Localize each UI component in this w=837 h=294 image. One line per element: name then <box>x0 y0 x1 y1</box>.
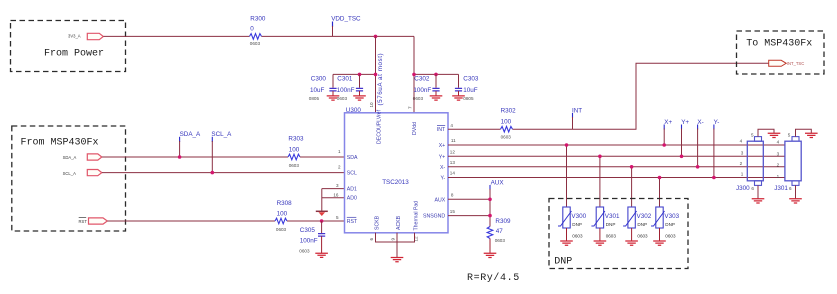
svg-text:6: 6 <box>751 186 754 191</box>
sheet box From Power <box>11 21 126 72</box>
svg-text:V302: V302 <box>637 213 652 220</box>
svg-text:INT: INT <box>437 127 446 133</box>
resistor R300 <box>250 16 266 46</box>
svg-text:0603: 0603 <box>299 248 310 253</box>
wire R308 to U300 RST <box>287 220 345 222</box>
port SCL_A <box>63 170 102 176</box>
svg-text:Y-: Y- <box>714 119 720 126</box>
net label AUX <box>488 179 504 226</box>
svg-text:7: 7 <box>408 106 413 109</box>
resistor R303 <box>288 136 304 169</box>
svg-text:100nF: 100nF <box>300 238 318 245</box>
svg-text:3V3_A: 3V3_A <box>68 33 81 38</box>
svg-text:Y+: Y+ <box>439 154 446 160</box>
svg-text:0603: 0603 <box>495 238 506 243</box>
net label SDA_A <box>178 131 201 159</box>
svg-text:1: 1 <box>741 172 744 177</box>
junction C301 on rail <box>358 73 362 77</box>
svg-text:0: 0 <box>250 26 254 33</box>
junction C302 on rail <box>434 73 438 77</box>
svg-text:(576uA at most): (576uA at most) <box>377 53 384 106</box>
svg-text:R303: R303 <box>288 136 304 143</box>
svg-text:AUX: AUX <box>491 179 505 186</box>
svg-text:0603: 0603 <box>337 96 348 101</box>
junction rail-vertical <box>374 73 378 77</box>
svg-text:5: 5 <box>751 132 754 137</box>
svg-text:0603: 0603 <box>250 41 261 46</box>
ground V303 <box>653 241 666 245</box>
wire R302 to riser <box>513 63 769 129</box>
svg-text:0603: 0603 <box>413 96 424 101</box>
svg-text:0603: 0603 <box>606 233 617 238</box>
svg-text:0603: 0603 <box>501 134 512 139</box>
wire 3V3_A to R300 <box>104 35 250 37</box>
capacitor C302 <box>413 74 440 101</box>
svg-text:DNP: DNP <box>637 222 647 227</box>
svg-text:13: 13 <box>450 160 456 165</box>
svg-text:6: 6 <box>789 186 792 191</box>
svg-text:AD0: AD0 <box>347 196 357 202</box>
wire Y- <box>448 177 785 179</box>
capacitor C303 <box>455 74 479 101</box>
wire X+ <box>448 144 785 146</box>
wire vertical rail to U300 pin 10 <box>375 36 377 112</box>
wire J301 bottom tab to gnd <box>795 185 797 198</box>
svg-text:100: 100 <box>277 211 288 218</box>
svg-text:100: 100 <box>501 118 512 125</box>
wire AD1-AD0 tie <box>321 189 323 211</box>
ground J301 bottom <box>789 199 802 203</box>
net label Y+ <box>680 119 690 158</box>
ground C303 <box>452 96 465 100</box>
wire vertical rail to U300 pin 7 <box>413 36 415 112</box>
svg-text:X+: X+ <box>439 143 446 149</box>
junction rail-vertical right <box>412 73 416 77</box>
varistor V301 <box>591 155 620 242</box>
svg-text:SNSGND: SNSGND <box>423 214 445 220</box>
svg-text:SCL_A: SCL_A <box>63 171 76 176</box>
svg-text:C301: C301 <box>337 76 353 83</box>
resistor R308 <box>275 200 292 232</box>
svg-text:0603: 0603 <box>289 163 300 168</box>
junction C305 tap <box>320 219 324 223</box>
port SDA_A <box>63 154 102 160</box>
svg-text:X+: X+ <box>664 119 672 126</box>
svg-text:C300: C300 <box>311 76 327 83</box>
svg-text:SCL_A: SCL_A <box>211 131 232 138</box>
svg-text:0603: 0603 <box>572 233 583 238</box>
wire AUX <box>448 198 490 200</box>
svg-text:0603: 0603 <box>637 233 648 238</box>
svg-text:DNP: DNP <box>554 257 572 268</box>
ground C305 <box>315 253 328 257</box>
capacitor C305 <box>299 221 325 253</box>
svg-text:10uF: 10uF <box>463 87 478 94</box>
op U300 TSC2013 <box>345 107 449 233</box>
svg-text:To MSP430Fx: To MSP430Fx <box>746 39 812 50</box>
svg-text:J300: J300 <box>736 185 750 192</box>
svg-text:V300: V300 <box>571 213 586 220</box>
wire R303 to U300 SDA <box>300 156 345 158</box>
net label INT <box>572 107 582 129</box>
sheet box From MSP430Fx <box>12 126 126 231</box>
ground V302 <box>625 241 638 245</box>
svg-text:X-: X- <box>440 165 445 171</box>
svg-text:X-: X- <box>697 119 703 126</box>
net label Y- <box>712 119 719 179</box>
svg-text:100nF: 100nF <box>413 87 431 94</box>
port RST <box>79 218 108 225</box>
capacitor C301 <box>337 74 364 101</box>
svg-text:0805: 0805 <box>309 96 320 101</box>
svg-text:15: 15 <box>450 209 456 214</box>
svg-text:TSC2013: TSC2013 <box>382 179 409 186</box>
net label X- <box>696 119 704 169</box>
wire SNSGND <box>448 215 490 217</box>
svg-text:R302: R302 <box>501 107 517 114</box>
wire SCL to U300 <box>102 172 345 174</box>
svg-text:R309: R309 <box>495 218 511 225</box>
svg-text:5: 5 <box>336 215 339 220</box>
resistor R302 <box>501 107 517 139</box>
connector J301 <box>774 137 801 192</box>
svg-text:SDA: SDA <box>347 155 358 161</box>
wire AD0 <box>322 197 345 199</box>
svg-text:2: 2 <box>338 164 341 169</box>
svg-text:0603: 0603 <box>665 233 676 238</box>
svg-text:11: 11 <box>451 138 456 143</box>
svg-text:Thermal Pad: Thermal Pad <box>414 201 420 231</box>
svg-text:INT_TSC: INT_TSC <box>787 61 804 66</box>
svg-text:100: 100 <box>289 146 300 153</box>
ground C302 <box>430 96 443 100</box>
svg-text:8: 8 <box>451 193 454 198</box>
svg-text:DNP: DNP <box>665 222 675 227</box>
svg-text:1: 1 <box>777 174 780 179</box>
svg-text:5: 5 <box>788 132 791 137</box>
svg-text:VDD_TSC: VDD_TSC <box>331 16 361 23</box>
svg-text:ACKB: ACKB <box>396 215 402 230</box>
wire J300 bottom tab to gnd <box>757 185 759 198</box>
svg-text:From Power: From Power <box>44 49 104 60</box>
svg-text:C305: C305 <box>300 227 316 234</box>
wire Y+ <box>448 155 785 157</box>
svg-text:3: 3 <box>777 151 780 156</box>
svg-text:DNP: DNP <box>572 222 582 227</box>
svg-text:SCL: SCL <box>347 171 357 177</box>
ground C300 <box>327 96 340 100</box>
net label X+ <box>662 119 672 147</box>
svg-text:4: 4 <box>740 139 743 144</box>
ground C301 <box>353 96 366 100</box>
ground V300 <box>560 241 573 245</box>
capacitor C300 <box>309 74 337 101</box>
ground U300 bottom <box>391 258 404 262</box>
ground J300 bottom <box>752 199 765 203</box>
ground J300 top <box>768 133 781 137</box>
svg-text:INT: INT <box>572 107 582 114</box>
wire SDA to R303 <box>102 156 288 158</box>
svg-text:V301: V301 <box>605 213 620 220</box>
svg-text:100nF: 100nF <box>337 87 355 94</box>
svg-text:From MSP430Fx: From MSP430Fx <box>21 138 99 149</box>
svg-text:10uF: 10uF <box>310 87 325 94</box>
wire J301 top tab to gnd <box>796 129 812 136</box>
wire cap rail right <box>414 73 459 75</box>
svg-text:R308: R308 <box>277 200 293 207</box>
svg-text:DNP: DNP <box>606 222 616 227</box>
DNP box <box>549 199 688 269</box>
svg-text:14: 14 <box>450 171 456 176</box>
svg-text:SDA_A: SDA_A <box>180 131 201 138</box>
svg-text:2: 2 <box>777 163 780 168</box>
wire INT to corner <box>448 128 501 130</box>
svg-text:Y-: Y- <box>440 176 445 182</box>
svg-text:RST: RST <box>79 219 88 224</box>
svg-text:AUX: AUX <box>435 197 446 203</box>
svg-text:4: 4 <box>450 123 453 128</box>
svg-text:R=Ry/4.5: R=Ry/4.5 <box>467 272 520 284</box>
svg-text:9: 9 <box>391 238 396 241</box>
ground V301 <box>594 241 607 245</box>
svg-text:16: 16 <box>333 192 339 197</box>
svg-text:10: 10 <box>369 102 374 108</box>
resistor R309 <box>487 218 511 253</box>
connector J300 <box>736 137 763 192</box>
svg-text:1: 1 <box>338 149 341 154</box>
ground arrow AD0/AD1 <box>316 210 328 212</box>
svg-text:0805: 0805 <box>463 96 474 101</box>
wire R300 to corner <box>262 35 415 37</box>
svg-text:C302: C302 <box>414 76 430 83</box>
svg-text:47: 47 <box>496 228 504 235</box>
svg-text:2: 2 <box>740 161 743 166</box>
varistor V300 <box>558 143 587 241</box>
ground J301 top <box>805 133 818 137</box>
svg-text:0603: 0603 <box>276 227 287 232</box>
svg-text:3: 3 <box>336 183 339 188</box>
svg-text:C303: C303 <box>463 76 479 83</box>
sheet box To MSP430Fx <box>737 31 825 74</box>
svg-text:AD1: AD1 <box>347 187 357 193</box>
svg-text:J301: J301 <box>774 185 788 192</box>
junction on main rail at x=375.5 <box>374 35 378 39</box>
svg-text:R300: R300 <box>250 16 266 23</box>
svg-text:RST: RST <box>347 219 358 225</box>
svg-text:4: 4 <box>777 139 780 144</box>
svg-text:V303: V303 <box>664 213 679 220</box>
svg-text:6: 6 <box>369 238 374 241</box>
power port VDD_TSC <box>331 16 361 37</box>
ground R309 <box>484 253 497 257</box>
wire RST to R308 <box>107 220 275 222</box>
svg-text:SCKB: SCKB <box>375 215 381 230</box>
svg-text:DECOUPLVref: DECOUPLVref <box>376 109 382 144</box>
net label SCL_A <box>211 131 233 174</box>
svg-text:3: 3 <box>741 150 744 155</box>
svg-text:Y+: Y+ <box>681 119 689 126</box>
port INT_TSC <box>769 60 805 66</box>
varistor V302 <box>623 165 652 241</box>
svg-text:12: 12 <box>450 149 456 154</box>
wires U300 bottom pins to gnd bar <box>376 233 415 258</box>
svg-text:SDA_A: SDA_A <box>63 155 77 160</box>
wire J300 top tab to gnd <box>758 129 774 136</box>
port 3V3_A <box>68 33 103 39</box>
wire X- <box>448 166 785 168</box>
svg-text:DVdd: DVdd <box>412 122 418 135</box>
wire AD1 <box>322 188 345 190</box>
wire cap rail left <box>333 73 376 75</box>
varistor V303 <box>651 176 680 241</box>
